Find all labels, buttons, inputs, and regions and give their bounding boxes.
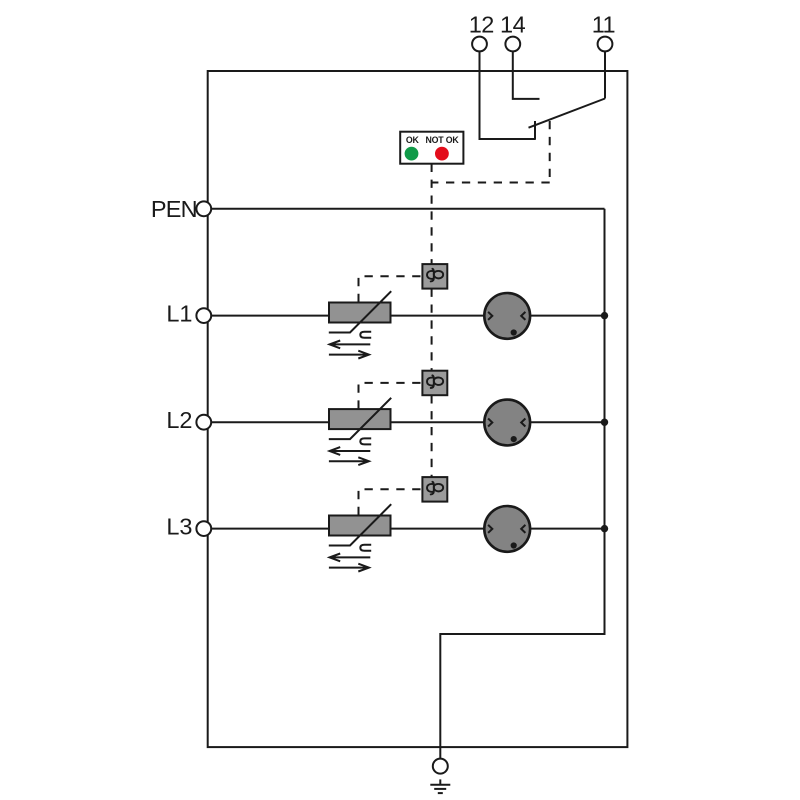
left energy arrow L1 [330, 341, 371, 349]
dashed sensing line varistor to disconnector L3 [359, 489, 423, 515]
varistor body L1 [329, 303, 391, 323]
switch fixed contact stub at node 12 [534, 121, 536, 140]
right energy arrow L3 [329, 564, 369, 572]
terminal 11 label [592, 12, 615, 38]
changeover switch movable arm [529, 99, 606, 128]
svg-text:11: 11 [592, 12, 615, 38]
svg-text:PEN: PEN [151, 196, 197, 222]
PEN terminal circle [196, 201, 211, 216]
dashed sensing line varistor to disconnector L2 [359, 383, 423, 409]
spark gap right electrode L3 [521, 525, 525, 533]
spark gap reference dot L2 [511, 436, 517, 442]
enclosure outline of surge protective device [208, 71, 628, 747]
label NOT OK [425, 135, 459, 145]
thermal disconnector L3 [422, 477, 447, 502]
spark gap left electrode L3 [488, 525, 492, 533]
varistor U symbol L2 [360, 438, 371, 444]
L1 wire [211, 315, 604, 317]
dashed sensing line varistor to disconnector L1 [359, 276, 423, 302]
junction dot L3 to PE bus [601, 525, 608, 532]
svg-text:OK: OK [406, 135, 420, 145]
terminal 12 circle [472, 37, 487, 52]
spark gap left electrode L2 [488, 419, 492, 427]
svg-text:12: 12 [469, 12, 494, 38]
varistor body L3 [329, 516, 391, 536]
green OK LED [405, 147, 419, 161]
status indicator box [400, 132, 463, 164]
L3 label [166, 513, 192, 539]
spark gap right electrode L2 [521, 419, 525, 427]
varistor diagonal stroke L1 [329, 291, 391, 332]
right energy arrow L2 [329, 457, 369, 465]
svg-text:L3: L3 [166, 513, 192, 539]
label OK [406, 135, 420, 145]
dashed linkage from indicator box down to thermal disconnector chain [431, 164, 433, 264]
left energy arrow L3 [330, 554, 371, 562]
spark gap left electrode L1 [488, 312, 492, 320]
L1 label [166, 300, 192, 326]
wire from terminal 14 down with stub [513, 51, 540, 99]
right energy arrow L1 [329, 351, 369, 359]
dashed linkage from switch arm down [549, 121, 551, 183]
dashed linkage L2 to L3 disconnector [431, 395, 433, 477]
PE bus bottom horizontal [440, 633, 605, 635]
dashed linkage L1 to L2 disconnector [431, 289, 433, 371]
theta symbol L1 [427, 269, 443, 282]
PEN label [151, 196, 197, 222]
L3 wire [211, 528, 604, 530]
PEN wire [211, 208, 604, 210]
L2 label [166, 407, 192, 433]
svg-text:L2: L2 [166, 407, 192, 433]
varistor body L2 [329, 409, 391, 429]
svg-text:NOT OK: NOT OK [425, 135, 459, 145]
spark gap electrode circle L1 [484, 293, 530, 339]
terminal 11 circle [598, 37, 613, 52]
dashed linkage horizontal to indicator [432, 182, 550, 184]
terminal 12 label [469, 12, 494, 38]
spark gap right electrode L1 [521, 312, 525, 320]
theta symbol L2 [427, 375, 443, 388]
L2 wire [211, 421, 604, 423]
spark gap electrode circle L3 [484, 506, 530, 552]
spark gap reference dot L1 [511, 329, 517, 335]
theta symbol L3 [427, 482, 443, 495]
earth symbol [430, 779, 450, 793]
wire from terminal 11 down to switch arm pivot [604, 51, 606, 98]
terminal 14 label [500, 12, 526, 38]
varistor U symbol L1 [360, 332, 371, 338]
thermal disconnector L2 [422, 371, 447, 396]
terminal 14 circle [505, 37, 520, 52]
svg-text:L1: L1 [166, 300, 192, 326]
varistor diagonal stroke L3 [329, 504, 391, 545]
varistor diagonal stroke L2 [329, 398, 391, 439]
left energy arrow L2 [330, 447, 371, 455]
L2 terminal circle [196, 415, 211, 430]
L3 terminal circle [196, 521, 211, 536]
red NOT OK LED [435, 147, 449, 161]
varistor U symbol L3 [360, 545, 371, 551]
thermal disconnector L1 [422, 264, 447, 289]
junction dot L1 to PE bus [601, 312, 608, 319]
earth terminal circle [433, 759, 448, 774]
L1 terminal circle [196, 308, 211, 323]
PE bus vertical [604, 209, 606, 634]
spark gap reference dot L3 [511, 542, 517, 548]
junction dot L2 to PE bus [601, 419, 608, 426]
PE bus down to earth terminal [439, 633, 441, 759]
wire from terminal 12 down and right to switch common contact [480, 51, 536, 139]
spark gap electrode circle L2 [484, 400, 530, 446]
svg-text:14: 14 [500, 12, 526, 38]
